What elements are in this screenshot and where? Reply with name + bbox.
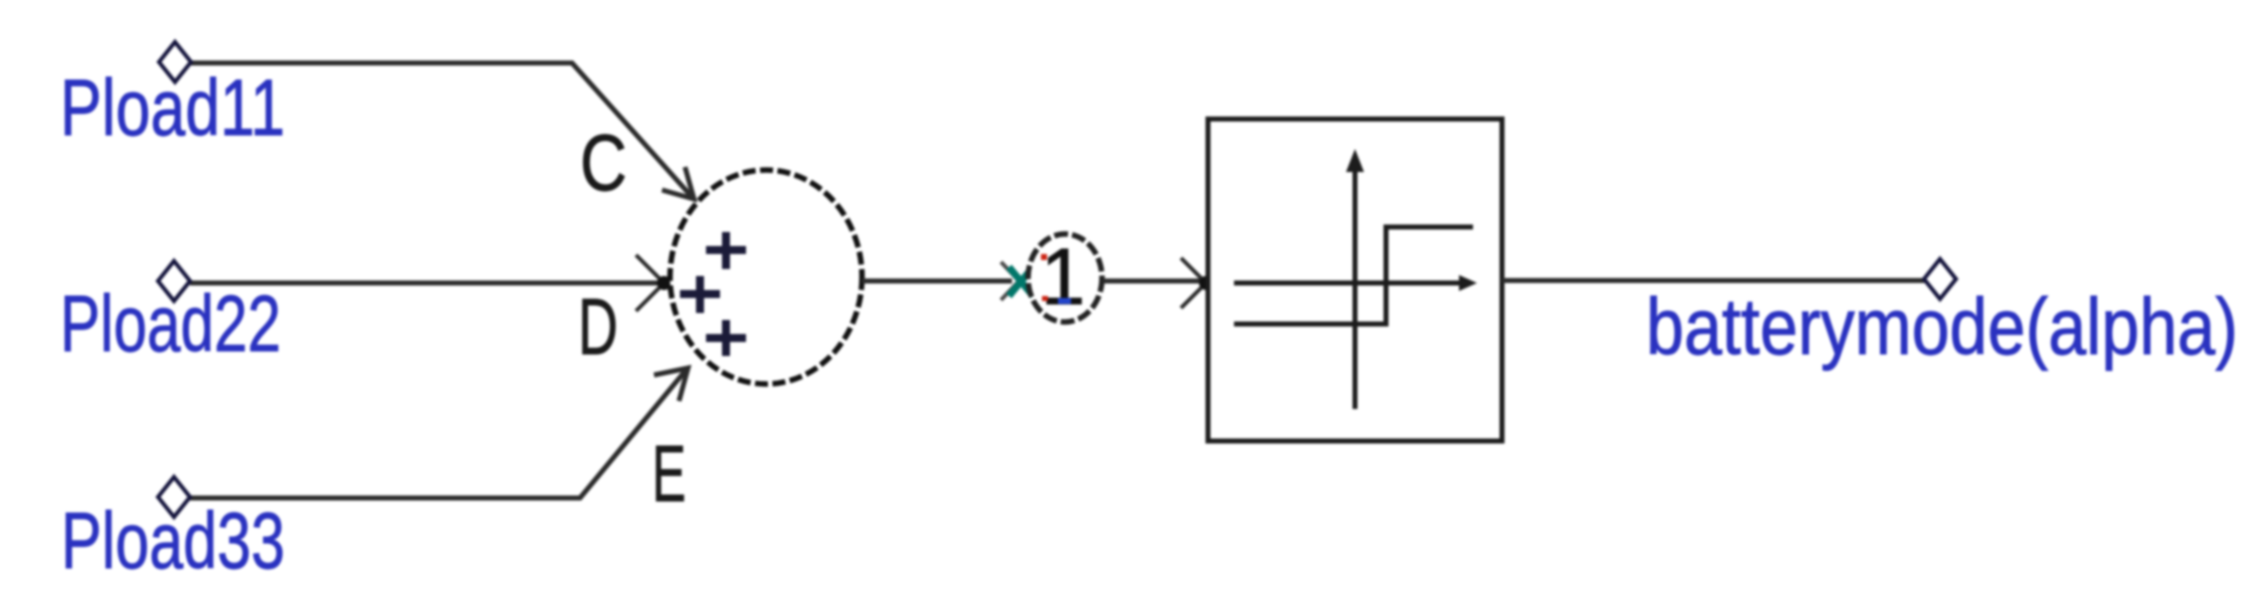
tiny red mark top [1041,254,1047,260]
input port Pload22 diamond [158,261,190,301]
plus sign 3 (input E) [706,320,746,356]
input port Pload33 diamond [158,477,190,517]
tiny blue mark [1058,298,1071,304]
plus sign 1 (input C) [706,232,746,269]
wire from Pload22 port to sum junction (middle input) [190,281,662,286]
relay icon hysteresis step [1234,227,1473,324]
sum junction circle U1 [670,170,862,384]
svg-text:E: E [652,429,686,518]
arrowhead at sum input E [654,368,688,401]
output port diamond [1924,259,1956,299]
X arrowhead at relay input [1181,258,1224,308]
input port Pload11 diamond [159,42,191,82]
relay icon vertical axis [1346,149,1364,409]
svg-text:Pload22: Pload22 [60,279,281,368]
wire from unit circle to relay block [1103,279,1202,284]
svg-text:1: 1 [1041,232,1086,321]
gray arrowhead X behind green marker [1001,262,1037,300]
wire from Pload11 port to sum junction (top input) [190,63,692,197]
relay icon horizontal axis with arrow [1234,275,1477,291]
green connection X marker [1009,267,1033,296]
svg-text:Pload33: Pload33 [61,496,285,585]
plus sign 2 (input D) [680,276,720,313]
wire from Pload33 port to sum junction (bottom input) [190,370,686,498]
relay block box [1208,119,1502,441]
tiny red mark bottom [1042,296,1048,301]
arrowhead at sum input C [662,167,694,199]
svg-text:D: D [578,282,618,371]
svg-text:C: C [580,118,627,207]
unit circle block "1" [1028,234,1102,322]
X arrowhead at sum middle input [636,255,679,311]
svg-text:batterymode(alpha): batterymode(alpha) [1646,282,2238,371]
wire from relay block to output port [1502,278,1926,283]
svg-text:Pload11: Pload11 [60,63,285,152]
wire from sum junction to unit circle [862,279,1012,284]
